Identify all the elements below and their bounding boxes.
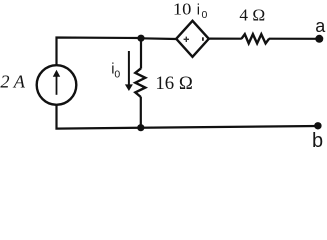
- wire: diamond right vertex to 4ohm resistor: [209, 37, 242, 39]
- wire top-left: corner to junction: [57, 38, 142, 65]
- label 2 A: [0, 72, 25, 92]
- resistor 16 ohm (vertical zigzag): [135, 68, 145, 97]
- svg-text:4 Ω: 4 Ω: [239, 6, 265, 25]
- wire: resistor 16 bottom lead: [140, 97, 142, 128]
- svg-text:16 Ω: 16 Ω: [155, 74, 192, 94]
- current arrow i0 (downward): [125, 51, 133, 91]
- terminal a: dot: [315, 35, 323, 43]
- label 4 Ω: [239, 6, 265, 25]
- svg-text:0: 0: [114, 69, 120, 81]
- svg-text:10: 10: [173, 0, 192, 18]
- node: junction dot top of 16ohm resistor: [137, 35, 144, 42]
- svg-text:a: a: [315, 16, 326, 36]
- polarity plus inside diamond: [184, 37, 189, 42]
- terminal b: dot: [314, 122, 321, 129]
- label 16 Ω: [155, 74, 192, 94]
- polarity minus inside diamond: [202, 37, 204, 41]
- wire bottom: from source bottom corner to terminal b: [57, 106, 319, 129]
- wire: resistor 16 top lead: [140, 38, 142, 69]
- resistor 4 ohm (horizontal zigzag): [242, 34, 270, 43]
- label a: [315, 16, 326, 36]
- wire: 4ohm resistor to terminal a: [269, 38, 320, 40]
- svg-text:b: b: [312, 130, 323, 149]
- svg-text:i: i: [197, 2, 200, 18]
- label i0: [111, 61, 120, 80]
- label b: [312, 130, 323, 152]
- label 10 i0: [173, 0, 208, 21]
- wire: junction to diamond left vertex: [141, 37, 177, 40]
- node: junction dot bottom of 16ohm resistor: [137, 124, 144, 131]
- svg-text:0: 0: [202, 9, 208, 21]
- svg-text:2 A: 2 A: [0, 72, 25, 92]
- dependent source U1 (diamond, 10 i0): [176, 21, 209, 57]
- current source I1 (2 A), circle with up arrow: [37, 65, 77, 105]
